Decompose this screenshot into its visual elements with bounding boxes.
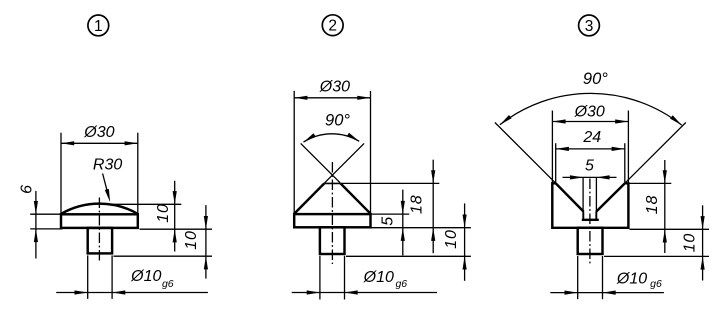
extension line pin bottom (2) <box>346 255 471 257</box>
svg-text:6: 6 <box>19 184 36 194</box>
dim 10 (2) lower arrowhead <box>463 256 467 269</box>
dim 24 dimension line <box>556 148 625 150</box>
dim 24 right extension line <box>624 143 626 183</box>
head disc outline (2) <box>294 214 370 227</box>
dim 90&#176; arc (3) <box>500 93 682 125</box>
dim Ø30 (2) left extension line <box>293 91 295 214</box>
svg-text:2: 2 <box>328 18 337 35</box>
centerline (3) <box>589 179 591 264</box>
dim Ø10 right extension line (2) <box>344 256 346 300</box>
dim 18 (2) upper arrowhead <box>431 170 435 183</box>
vee flank construction line left (3) <box>495 123 556 184</box>
svg-text:Ø30: Ø30 <box>319 78 350 95</box>
svg-text:1: 1 <box>94 18 103 35</box>
svg-text:10: 10 <box>155 203 172 222</box>
dim 18 (2) dimension line <box>432 160 434 254</box>
dim 6 lower extension line <box>30 228 62 230</box>
dim Ø30 (3) right arrowhead <box>615 119 628 123</box>
cone truncated tip flat (2) <box>324 182 340 184</box>
svg-text:Ø10: Ø10 <box>616 271 647 288</box>
extension line pin bottom (3) <box>604 255 709 257</box>
cone right flank (2) <box>341 183 371 213</box>
dim Ø30 (3) dimension line <box>552 121 628 123</box>
dim Ø10 right extension line (1) <box>111 255 113 299</box>
dim 18 (3) lower arrowhead <box>663 229 667 242</box>
shared extension line disc bottom (2) <box>372 227 471 229</box>
item number 3 balloon <box>579 15 600 36</box>
dim 10 pin length dimension line <box>205 205 207 279</box>
spigot pin outline (2) <box>320 227 345 254</box>
dim Ø30 (2) right arrowhead <box>357 96 370 100</box>
dim Ø10 left arrowhead (3) <box>565 291 578 295</box>
dim 10 (2) dimension line <box>464 203 466 280</box>
vee groove right flank <box>596 183 625 211</box>
dim 10 (2) upper arrowhead <box>463 215 467 228</box>
svg-text:g6: g6 <box>650 278 662 290</box>
block outline (3) <box>552 183 628 228</box>
dim 24 left extension line <box>555 143 557 183</box>
cone flank construction line right (2) <box>324 143 364 183</box>
dim 10 (3) upper arrowhead <box>701 216 705 229</box>
slot bottom <box>582 219 599 221</box>
dim 6 upper extension line <box>30 213 60 215</box>
dim Ø10 dimension line (1) <box>56 292 208 294</box>
dim 18 (3) top extension line <box>630 182 672 184</box>
dim 90&#176; arc right arrowhead (3) <box>670 115 682 125</box>
vee flank construction line right (3) <box>625 123 686 184</box>
slot right wall <box>595 212 597 220</box>
dim 6 upper arrowhead <box>34 201 38 214</box>
dim 10 (3) dimension line <box>702 205 704 280</box>
dim 24 right arrowhead <box>612 147 625 151</box>
dim 5 (2) lower arrowhead <box>401 228 405 241</box>
svg-text:24: 24 <box>582 129 601 146</box>
svg-text:18: 18 <box>644 195 661 214</box>
dim 5 (3) dimension line <box>563 176 617 178</box>
dim 90&#176; arc right arrowhead (2) <box>347 133 359 142</box>
dim Ø30 (1) right arrowhead <box>125 141 138 145</box>
extension line pin bottom (1) <box>114 255 213 257</box>
centerline (2) <box>331 162 333 264</box>
svg-text:g6: g6 <box>395 278 407 290</box>
vee groove left flank <box>556 183 584 211</box>
dim Ø30 (1) left extension line <box>60 133 62 214</box>
dim Ø30 (2) dimension line <box>294 97 370 99</box>
svg-text:10: 10 <box>183 230 200 249</box>
item number 1 balloon <box>88 15 109 36</box>
svg-text:Ø30: Ø30 <box>83 124 114 141</box>
svg-text:10: 10 <box>681 233 698 252</box>
dim 5 (3) left arrowhead <box>570 175 583 179</box>
dim 5 (2) top extension line <box>372 213 410 215</box>
svg-text:3: 3 <box>585 18 594 35</box>
centerline (1) <box>98 198 100 263</box>
shared extension line block bottom (3) <box>630 228 710 230</box>
svg-text:Ø10: Ø10 <box>363 269 394 286</box>
svg-text:5: 5 <box>585 157 594 174</box>
dim Ø10 right arrowhead (2) <box>345 290 358 294</box>
slot left edge extension line <box>582 178 584 212</box>
dim 5 (2) dimension line <box>402 190 404 256</box>
dim 10 head height extension line top <box>101 203 181 205</box>
dim Ø30 (1) dimension line <box>61 142 138 144</box>
dome spherical top arc R30 <box>61 204 138 214</box>
svg-text:5: 5 <box>380 216 397 226</box>
dim 18 (3) upper arrowhead <box>663 170 667 183</box>
dim Ø30 (2) left arrowhead <box>294 96 307 100</box>
dim Ø30 (1) left arrowhead <box>61 141 74 145</box>
svg-text:18: 18 <box>409 195 426 214</box>
dim Ø30 (3) left arrowhead <box>552 119 565 123</box>
dim Ø30 (3) left extension line <box>551 111 553 184</box>
dim Ø10 left arrowhead (2) <box>307 290 320 294</box>
item number 2 balloon <box>322 15 343 36</box>
dim 10 head height upper arrowhead <box>173 191 177 204</box>
dim R30 leader arrowhead <box>105 189 110 202</box>
dim 10 head height dimension line <box>174 181 176 252</box>
dim Ø10 left extension line (3) <box>577 256 579 299</box>
spigot pin outline (3) <box>578 228 603 254</box>
dim 90&#176; arc (2) <box>304 134 360 142</box>
dim 90&#176; arc left arrowhead (2) <box>304 133 316 142</box>
dim 10 pin length upper arrowhead <box>204 216 208 229</box>
dim 6 lower arrowhead <box>34 229 38 242</box>
cone left flank (2) <box>294 183 324 213</box>
svg-text:10: 10 <box>443 229 460 248</box>
dim Ø10 left extension line (2) <box>319 256 321 300</box>
dim 10 (3) lower arrowhead <box>701 256 705 269</box>
dim 6 dimension line <box>35 191 37 259</box>
dim 18 (2) lower arrowhead <box>431 228 435 241</box>
dim Ø10 left arrowhead (1) <box>75 290 88 294</box>
dim Ø10 left extension line (1) <box>87 255 89 299</box>
dim Ø10 dimension line (3) <box>550 292 664 294</box>
svg-text:R30: R30 <box>93 157 122 174</box>
dim Ø30 (1) right extension line <box>137 133 139 214</box>
dim Ø10 right arrowhead (3) <box>603 291 616 295</box>
slot right edge extension line <box>595 178 597 212</box>
svg-text:Ø10: Ø10 <box>130 268 161 285</box>
svg-text:g6: g6 <box>162 278 174 290</box>
dim 18 (2) top extension line <box>342 182 440 184</box>
dim Ø30 (3) right extension line <box>627 111 629 184</box>
dim 5 (3) right arrowhead <box>596 175 609 179</box>
head disc outline (1) <box>61 214 138 228</box>
cone flank construction line left (2) <box>301 143 341 183</box>
dim 10 head height lower arrowhead <box>173 229 177 242</box>
dim 90&#176; arc left arrowhead (3) <box>500 115 512 125</box>
svg-text:Ø30: Ø30 <box>574 104 605 121</box>
shared extension line disc bottom (1) <box>140 228 213 230</box>
dim Ø10 right extension line (3) <box>602 256 604 299</box>
svg-text:90°: 90° <box>583 70 608 88</box>
dim Ø10 dimension line (2) <box>292 292 437 294</box>
dim 24 left arrowhead <box>556 147 569 151</box>
dim 5 (2) upper arrowhead <box>401 201 405 214</box>
dim 10 pin length lower arrowhead <box>204 256 208 269</box>
svg-text:90°: 90° <box>325 112 350 130</box>
dim Ø10 right arrowhead (1) <box>112 290 125 294</box>
dim Ø30 (2) right extension line <box>370 91 372 214</box>
dim 18 (3) dimension line <box>664 160 666 253</box>
dim R30 leader line <box>103 174 109 197</box>
slot left wall <box>582 212 584 220</box>
spigot pin outline (1) <box>88 228 112 254</box>
